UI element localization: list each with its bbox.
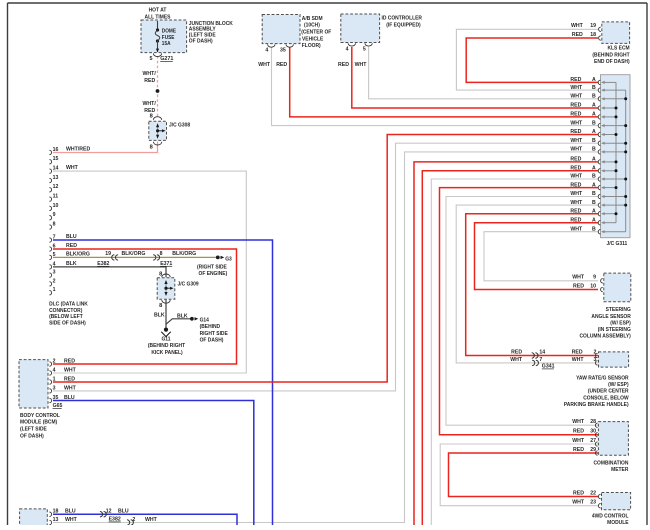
svg-text:BLK: BLK [177,314,188,320]
svg-text:(IN STEERING: (IN STEERING [598,327,631,333]
svg-text:8: 8 [160,251,163,257]
svg-text:WHT: WHT [145,517,158,523]
svg-text:9: 9 [593,275,596,281]
svg-text:5: 5 [150,56,153,62]
svg-text:STEERING: STEERING [606,307,631,313]
svg-text:WHT: WHT [64,367,77,373]
svg-text:(UNDER CENTER: (UNDER CENTER [588,388,629,394]
svg-text:WHT: WHT [570,226,583,232]
svg-text:BLU: BLU [64,395,75,401]
svg-text:RED: RED [570,208,581,214]
svg-text:PARKING BRAKE HANDLE): PARKING BRAKE HANDLE) [564,402,629,408]
svg-text:1: 1 [53,376,56,382]
svg-text:BLK: BLK [154,312,165,318]
svg-text:A: A [592,112,596,118]
svg-text:ID CONTROLLER: ID CONTROLLER [382,15,423,21]
svg-text:(BEHIND RIGHT: (BEHIND RIGHT [592,52,630,58]
svg-text:OF DASH): OF DASH) [189,38,213,44]
svg-text:WHT: WHT [572,419,585,425]
svg-text:B: B [592,94,596,100]
svg-text:10: 10 [590,283,596,289]
svg-text:J/C G308: J/C G308 [169,122,190,128]
svg-text:END OF DASH): END OF DASH) [594,59,630,65]
svg-text:4: 4 [265,48,268,54]
svg-text:BLK: BLK [66,261,77,267]
svg-text:BODY CONTROL: BODY CONTROL [20,413,60,419]
svg-text:G14: G14 [200,317,209,323]
svg-text:13: 13 [53,175,59,181]
svg-text:7: 7 [53,234,56,240]
svg-text:19: 19 [105,251,111,257]
svg-text:29: 29 [590,447,596,453]
svg-text:CONSOLE, BELOW: CONSOLE, BELOW [583,395,629,401]
svg-text:J/C G309: J/C G309 [178,281,199,287]
svg-text:A: A [592,208,596,214]
svg-text:WHT: WHT [570,120,583,126]
svg-text:RED: RED [570,166,581,172]
svg-text:B: B [592,174,596,180]
svg-text:WHT: WHT [572,438,585,444]
svg-text:BLU: BLU [65,508,76,514]
svg-text:(RIGHT SIDE: (RIGHT SIDE [197,264,227,270]
svg-text:(BEHIND: (BEHIND [200,324,221,330]
svg-text:WHT: WHT [64,385,77,391]
svg-text:18: 18 [590,32,596,38]
svg-text:WHT: WHT [572,275,585,281]
svg-text:2: 2 [594,349,597,355]
svg-text:A: A [592,77,596,83]
svg-text:4: 4 [53,367,56,373]
svg-text:(CENTER OF: (CENTER OF [301,29,332,35]
svg-text:WHT: WHT [570,94,583,100]
svg-text:WHT: WHT [570,147,583,153]
svg-text:23: 23 [590,500,596,506]
svg-text:RED: RED [276,62,287,68]
svg-text:WHT: WHT [570,200,583,206]
svg-text:35: 35 [53,395,59,401]
svg-text:4WD CONTROL: 4WD CONTROL [592,513,629,519]
svg-text:(10CH): (10CH) [304,22,320,28]
svg-text:KICK PANEL): KICK PANEL) [151,349,183,355]
svg-text:3: 3 [53,385,56,391]
svg-text:WHT: WHT [570,138,583,144]
svg-text:30: 30 [590,429,596,435]
svg-text:8: 8 [150,144,153,150]
svg-text:16: 16 [53,147,59,153]
svg-text:KLS ECM: KLS ECM [607,45,630,51]
svg-text:18: 18 [53,508,59,514]
svg-text:7: 7 [539,357,542,363]
svg-text:BLU: BLU [66,234,77,240]
svg-text:RED: RED [570,77,581,83]
svg-text:12: 12 [106,508,112,514]
svg-text:8: 8 [159,303,162,309]
svg-text:28: 28 [590,419,596,425]
svg-text:G3: G3 [225,256,232,262]
svg-text:A: A [592,217,596,223]
svg-text:WHT: WHT [355,62,368,68]
svg-text:RED: RED [573,283,584,289]
svg-text:5: 5 [363,47,366,53]
svg-text:RED: RED [573,490,584,496]
svg-text:ALL TIMES: ALL TIMES [145,14,171,20]
svg-text:RED: RED [66,243,77,249]
svg-text:A: A [592,182,596,188]
svg-text:13: 13 [53,517,59,523]
svg-text:COMBINATION: COMBINATION [593,460,628,466]
svg-text:A: A [592,157,596,163]
svg-text:YAW RATE/G SENSOR: YAW RATE/G SENSOR [576,375,629,381]
svg-text:RED: RED [570,157,581,163]
svg-text:FLOOR): FLOOR) [302,42,321,48]
svg-text:WHT: WHT [570,85,583,91]
svg-text:14: 14 [539,349,545,355]
svg-text:SIDE OF DASH): SIDE OF DASH) [49,320,86,326]
svg-text:(LEFT SIDE: (LEFT SIDE [20,426,47,432]
svg-text:RED: RED [570,103,581,109]
svg-text:A/B SDM: A/B SDM [302,16,323,22]
svg-text:22: 22 [590,490,596,496]
svg-text:COLUMN ASSEMBLY): COLUMN ASSEMBLY) [579,333,631,339]
svg-text:RED: RED [144,78,155,84]
svg-text:OF DASH): OF DASH) [200,337,224,343]
svg-text:15: 15 [53,156,59,162]
svg-text:2: 2 [53,278,56,284]
svg-text:WHT: WHT [572,357,585,363]
svg-text:(W/ ESP): (W/ ESP) [610,320,631,326]
svg-text:OF DASH): OF DASH) [20,433,44,439]
svg-text:WHT: WHT [258,62,271,68]
svg-text:8: 8 [53,221,56,227]
svg-text:8: 8 [150,114,153,120]
svg-text:10: 10 [53,203,59,209]
svg-text:WHT: WHT [571,23,584,29]
svg-text:WHT: WHT [570,191,583,197]
svg-text:BLK/ORG: BLK/ORG [122,251,146,257]
svg-text:HOT AT: HOT AT [149,7,167,13]
svg-text:B: B [592,138,596,144]
svg-text:OF ENGINE): OF ENGINE) [199,270,228,276]
svg-text:9: 9 [53,212,56,218]
svg-text:5: 5 [53,252,56,258]
svg-text:RED: RED [570,217,581,223]
svg-text:27: 27 [590,438,596,444]
svg-text:A: A [592,103,596,109]
svg-text:4: 4 [53,261,56,267]
svg-text:RED: RED [511,349,522,355]
svg-text:RED: RED [570,182,581,188]
svg-text:19: 19 [590,23,596,29]
svg-text:VEHICLE: VEHICLE [302,36,324,42]
svg-text:(BEHIND RIGHT: (BEHIND RIGHT [148,343,186,349]
svg-text:WHT: WHT [65,517,78,523]
svg-text:WHT: WHT [572,500,585,506]
svg-text:METER: METER [611,467,628,473]
svg-text:RED: RED [570,112,581,118]
svg-text:RED: RED [64,376,75,382]
svg-text:WHT: WHT [510,357,523,363]
svg-text:WHT/: WHT/ [143,71,157,77]
svg-text:J/C G311: J/C G311 [606,241,627,247]
svg-text:(IF EQUIPPED): (IF EQUIPPED) [386,22,421,28]
svg-text:RED: RED [572,32,583,38]
svg-text:4: 4 [346,47,349,53]
svg-text:BLU: BLU [118,508,129,514]
svg-text:1: 1 [53,287,56,293]
svg-text:11: 11 [53,194,59,200]
svg-text:15A: 15A [162,41,171,47]
svg-text:WHT: WHT [570,174,583,180]
svg-text:(W/ ESP): (W/ ESP) [608,382,629,388]
svg-text:2: 2 [132,517,135,523]
svg-text:WHT/: WHT/ [143,101,157,107]
svg-text:B: B [592,120,596,126]
svg-text:2: 2 [53,358,56,364]
svg-text:B: B [592,200,596,206]
svg-text:RED: RED [573,429,584,435]
svg-text:WHT/RED: WHT/RED [66,147,90,153]
svg-text:14: 14 [53,166,59,172]
svg-text:RIGHT SIDE: RIGHT SIDE [200,330,229,336]
svg-text:3: 3 [594,357,597,363]
svg-text:RED: RED [64,358,75,364]
svg-text:RED: RED [338,62,349,68]
svg-text:B: B [592,147,596,153]
svg-text:A: A [592,166,596,172]
svg-text:MODULE: MODULE [607,520,629,525]
svg-text:B: B [592,85,596,91]
svg-text:G11: G11 [161,336,170,342]
svg-text:MODULE (BCM): MODULE (BCM) [20,419,57,425]
svg-text:WHT: WHT [66,165,79,171]
svg-text:RED: RED [570,129,581,135]
svg-text:35: 35 [280,48,286,54]
svg-text:BLK/ORG: BLK/ORG [172,251,196,257]
svg-text:B: B [592,226,596,232]
svg-text:A: A [592,129,596,135]
svg-text:ANGLE SENSOR: ANGLE SENSOR [591,313,630,319]
svg-text:6: 6 [53,243,56,249]
svg-text:B: B [592,191,596,197]
svg-text:12: 12 [53,184,59,190]
svg-text:RED: RED [573,447,584,453]
svg-text:BLK/ORG: BLK/ORG [66,251,90,257]
svg-text:3: 3 [53,270,56,276]
svg-text:RED: RED [572,349,583,355]
